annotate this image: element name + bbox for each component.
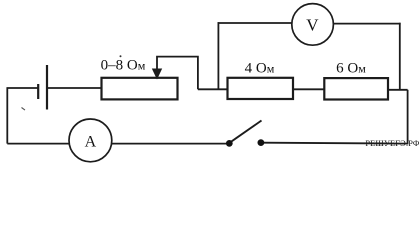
wire battery to rheostat	[47, 87, 102, 89]
rheostat R1 body	[102, 78, 178, 100]
voltmeter U1 circle	[292, 4, 334, 46]
speck stray mark	[22, 108, 26, 111]
speck above label	[120, 55, 122, 57]
wire battery left	[7, 87, 39, 89]
switch S1 lever	[230, 121, 262, 143]
wire between resistors	[293, 88, 324, 90]
resistor R3 6 Ohm body	[324, 78, 388, 99]
wire left vertical	[6, 88, 8, 144]
voltmeter branch left vertical	[217, 22, 219, 89]
rheostat wiper arm wire	[157, 57, 198, 90]
wire ammeter to switch	[112, 143, 228, 145]
voltmeter branch top left wire	[218, 22, 292, 24]
svg-text:0–8 Ом: 0–8 Ом	[101, 57, 146, 73]
wire resistor R3 to right corner	[388, 89, 408, 91]
wire wiper to resistor R2	[198, 88, 228, 90]
svg-text:6 Ом: 6 Ом	[336, 61, 366, 77]
voltmeter branch right vertical	[399, 23, 401, 90]
wire right vertical down	[407, 90, 409, 144]
svg-text:V: V	[306, 16, 319, 35]
svg-text:4 Ом: 4 Ом	[245, 61, 275, 77]
resistor R2 4 Ohm body	[228, 78, 294, 99]
switch S1 right contact dot	[258, 139, 265, 146]
switch S1 left contact dot	[226, 140, 233, 147]
voltmeter branch top right wire	[333, 23, 400, 25]
ammeter U2 circle	[69, 119, 112, 162]
rheostat wiper arrowhead	[153, 69, 162, 78]
wire bottom left to ammeter	[7, 143, 69, 145]
svg-text:A: A	[85, 133, 97, 150]
wire switch to right corner	[263, 142, 408, 145]
battery GB1 short plate	[37, 84, 39, 99]
battery GB1 long plate	[46, 65, 48, 110]
